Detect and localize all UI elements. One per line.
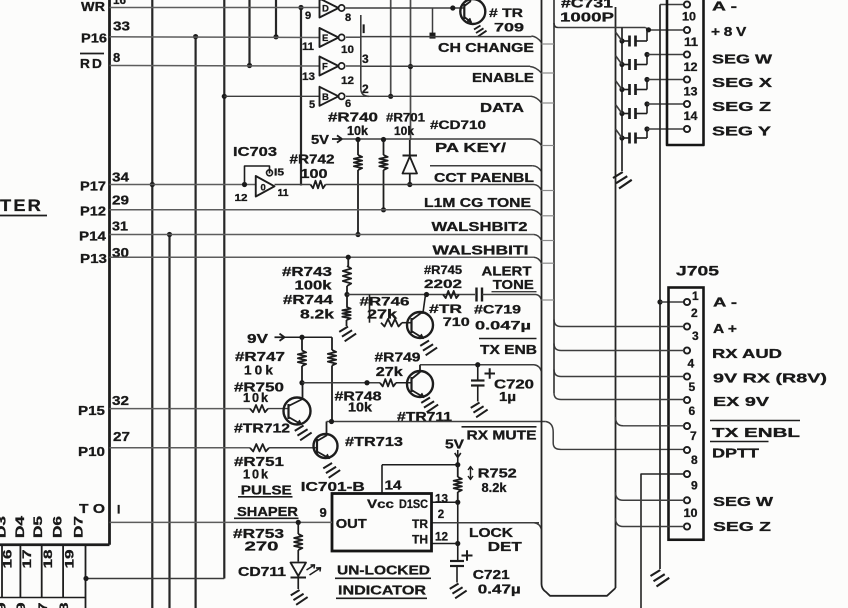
cap C731-1 riser to pin wire <box>646 30 648 41</box>
A- net vertical wire <box>659 5 661 570</box>
junction dot P16/x195.6 <box>193 34 198 39</box>
svg-text:SEG Y: SEG Y <box>712 125 772 139</box>
resistor R745 (horizontal) <box>443 291 459 298</box>
resistor R752 <box>457 465 459 477</box>
svg-text:19: 19 <box>63 549 77 568</box>
svg-text:R752: R752 <box>478 467 517 481</box>
LED CD711 <box>291 563 307 577</box>
flag diagonal LIM CG TONE <box>532 210 542 216</box>
junction dot RD/x249.5 <box>247 63 252 68</box>
J705 pin circle 10 <box>684 523 690 529</box>
svg-text:P16: P16 <box>81 31 107 46</box>
svg-text:TER: TER <box>0 196 43 215</box>
junction dot TR709 base wire <box>450 5 455 10</box>
svg-text:1µ: 1µ <box>499 390 516 404</box>
wire R752 to pin12 node <box>457 502 459 543</box>
9V arrow <box>275 334 285 341</box>
IC block right edge <box>108 0 111 545</box>
svg-text:SEG W: SEG W <box>712 53 772 67</box>
junction dot R747 bottom <box>299 380 304 385</box>
wire R747 bottom to R749 <box>302 382 380 384</box>
wire ENABLE <box>361 65 530 67</box>
svg-text:A +: A + <box>713 322 737 336</box>
svg-text:18: 18 <box>41 549 55 568</box>
svg-text:D3: D3 <box>0 516 9 538</box>
svg-text:11: 11 <box>278 188 289 199</box>
ground capacitor bus <box>613 172 632 189</box>
svg-text:5: 5 <box>689 380 696 394</box>
svg-text:100k: 100k <box>295 279 332 293</box>
wire LIM CG TONE (P12 row) <box>110 209 532 211</box>
svg-text:CH CHANGE: CH CHANGE <box>438 41 534 55</box>
svg-text:33: 33 <box>113 19 130 34</box>
inverter IC703 <box>256 176 275 197</box>
svg-text:16: 16 <box>113 0 126 7</box>
wire R742 to CCT PAENBL flag <box>326 184 535 186</box>
svg-text:+8V: +8V <box>711 25 750 39</box>
top connector pin circle 3 <box>684 76 690 82</box>
trunk diagonal to cap row 3 <box>616 81 623 90</box>
J705 pin circle 9 <box>684 497 690 503</box>
wire DPTT to J705 pin 7 <box>561 448 685 450</box>
bus wire x=249.5 <box>248 0 250 66</box>
wire P15 row <box>110 408 251 410</box>
svg-text:5V: 5V <box>311 132 329 147</box>
junction dot IC703 feedback <box>242 182 247 187</box>
junction dot R753 top <box>296 520 301 525</box>
J705 pin circle 5 <box>684 397 690 403</box>
wire inverter B output to DATA flag <box>346 95 531 97</box>
svg-text:D6: D6 <box>53 516 65 538</box>
svg-text:0.047µ: 0.047µ <box>475 319 531 333</box>
ground R744 <box>339 327 356 342</box>
svg-text:2: 2 <box>438 509 444 521</box>
svg-text:SEG Z: SEG Z <box>713 520 772 534</box>
cable trunk left line <box>542 0 616 596</box>
pin wire row y=129 <box>647 128 684 130</box>
svg-text:DATA: DATA <box>480 101 524 115</box>
plus sign C720 <box>485 368 496 378</box>
svg-text:P10: P10 <box>78 444 105 459</box>
wire SEG W to pin 9 <box>623 499 684 501</box>
svg-text:8: 8 <box>345 12 351 24</box>
junction dot P16row/x276 <box>273 34 278 39</box>
svg-text:19: 19 <box>0 602 9 608</box>
svg-text:11: 11 <box>684 35 698 49</box>
bottom connector lower edge <box>0 597 86 599</box>
svg-text:TX ENBL: TX ENBL <box>712 426 801 440</box>
svg-text:OUT: OUT <box>336 517 367 531</box>
svg-text:10: 10 <box>684 506 698 520</box>
flag diagonal CH CHANGE <box>532 36 542 43</box>
svg-text:WALSHBITI: WALSHBITI <box>433 244 529 258</box>
svg-text:P15: P15 <box>78 403 105 418</box>
svg-text:CD711: CD711 <box>238 565 286 579</box>
svg-text:#R749: #R749 <box>375 351 421 365</box>
cap C731-5 riser to pin wire <box>646 129 648 138</box>
flag curve TX ENB <box>534 365 542 372</box>
junction dot ENABLE/x410.5 <box>408 64 413 69</box>
trunk diagonal to cap row 1 <box>616 32 623 41</box>
svg-text:6: 6 <box>345 98 351 110</box>
svg-text:INDICATOR: INDICATOR <box>338 583 427 598</box>
svg-text:18: 18 <box>57 602 71 608</box>
svg-text:# TR: # TR <box>489 6 523 20</box>
wire inverter D output to TR709 base <box>346 7 464 9</box>
label TX ENBL with overline <box>710 420 800 422</box>
svg-text:P13: P13 <box>80 251 107 266</box>
svg-text:B: B <box>322 92 329 103</box>
svg-text:D1SC: D1SC <box>399 499 428 511</box>
wire TX ENBL to pin 6 <box>623 425 684 427</box>
connector J705 body <box>669 288 704 540</box>
inverter D <box>320 0 339 18</box>
wire x224 row to inverter B input <box>224 95 319 97</box>
svg-text:8.2k: 8.2k <box>300 308 334 322</box>
wire RD row to inverter F input <box>110 65 320 68</box>
svg-text:LOCK: LOCK <box>469 526 513 540</box>
svg-text:#R701: #R701 <box>386 111 425 125</box>
junction dot WR row/x301 <box>298 5 303 10</box>
wire RX MUTE <box>327 421 546 423</box>
wire WR row to inverter D input <box>110 7 320 9</box>
flag diagonal CCT PAENBL <box>534 185 542 191</box>
svg-text:12: 12 <box>341 75 354 87</box>
junction dot R743 top (P13 wire) <box>346 255 351 260</box>
wire pin 8 going down <box>641 474 684 608</box>
top connector P70x body <box>667 0 704 145</box>
flag diagonal ALERT TONE <box>536 295 542 301</box>
bus wire x=276 <box>275 0 277 37</box>
transistor TR710 <box>407 312 433 338</box>
LED light arrows <box>307 565 315 570</box>
svg-text:SEG W: SEG W <box>713 495 773 509</box>
svg-text:J705: J705 <box>676 264 720 279</box>
junction dot B-input/x224 <box>222 94 227 99</box>
svg-text:0: 0 <box>261 183 266 194</box>
svg-text:709: 709 <box>494 21 524 35</box>
svg-text:6: 6 <box>689 404 696 418</box>
ground TR713 emitter <box>323 463 340 478</box>
top connector pin circle 1 <box>684 27 690 33</box>
svg-text:14: 14 <box>385 479 402 493</box>
trunk exit curve SEG W <box>616 492 624 500</box>
resistor R749 (horizontal) <box>380 379 396 386</box>
cap C731-4 riser to pin wire <box>646 104 648 114</box>
svg-text:13: 13 <box>684 85 698 99</box>
bypass capacitor C731-2 <box>619 62 624 67</box>
5V down arrow <box>455 450 461 458</box>
svg-text:I: I <box>117 503 120 517</box>
svg-text:10k: 10k <box>347 124 368 138</box>
wire P17 row to IC703 input <box>110 184 256 186</box>
label DPTT with overline <box>710 441 769 443</box>
pin wire row y=79.5 <box>647 79 684 81</box>
svg-text:I: I <box>362 22 365 36</box>
J705 pin circle 8 <box>684 471 690 477</box>
svg-text:13: 13 <box>435 494 448 506</box>
svg-text:16: 16 <box>1 549 15 568</box>
bus wire x=195.6 from P16 <box>195 37 197 608</box>
wire IC703 output <box>275 184 311 186</box>
cap C731-3 riser to pin wire <box>646 80 648 90</box>
wire 9V RX to pin 4 <box>561 376 684 378</box>
flag diagonal WALSHBIT2 <box>534 235 542 241</box>
5V arrow <box>332 135 342 142</box>
+8V wire from cable <box>558 27 646 29</box>
svg-text:A -: A - <box>712 0 737 14</box>
svg-text:17: 17 <box>20 549 34 568</box>
wire TX ENB from TR711 collector <box>420 364 534 366</box>
wire A- to top connector pin <box>660 4 684 6</box>
resistor R746 (horizontal) <box>381 319 402 327</box>
IC703 feedback loop <box>245 166 270 185</box>
capacitor C720 (polarized) <box>477 365 479 380</box>
J705 pin circle 2 <box>684 323 690 329</box>
wire C719 to ALERT TONE flag <box>482 294 536 296</box>
svg-text:9V RX (R8V): 9V RX (R8V) <box>713 372 827 386</box>
trunk exit curve SEG Z <box>616 518 624 527</box>
flag diagonal WALSHBIT1 <box>534 257 542 263</box>
inner line exit curve RX AUD <box>554 344 561 351</box>
bottom connector cell dividers <box>1 545 3 598</box>
svg-text:5V: 5V <box>445 438 465 452</box>
svg-text:TR: TR <box>412 517 428 531</box>
wire J705 pin 1 <box>660 301 684 303</box>
svg-text:100: 100 <box>301 167 328 181</box>
svg-text:ALERT: ALERT <box>482 265 532 279</box>
pin 14 stub <box>381 465 383 494</box>
svg-text:#TR712: #TR712 <box>234 422 290 436</box>
wire pin 2 LOCK DET <box>432 522 540 524</box>
svg-text:10k: 10k <box>243 467 270 482</box>
svg-text:3: 3 <box>692 329 699 343</box>
svg-text:8.2k: 8.2k <box>482 481 507 495</box>
cable trunk right line <box>615 7 617 588</box>
wire alert tone divider to C719 <box>347 294 475 296</box>
svg-text:17: 17 <box>36 602 50 608</box>
label TX ENB with overline <box>479 338 537 340</box>
junction dot R752 bottom / pin13 <box>455 500 460 505</box>
svg-text:PA KEY/: PA KEY/ <box>435 141 507 155</box>
5V rail wire / PA KEY flag wire <box>342 138 531 140</box>
svg-text:P14: P14 <box>79 229 107 244</box>
svg-text:#TR713: #TR713 <box>345 435 403 449</box>
svg-text:F: F <box>322 62 328 73</box>
ground TR712 emitter <box>295 426 312 441</box>
ground CD711 <box>291 590 308 605</box>
ground TR709 emitter <box>474 26 487 37</box>
svg-text:10k: 10k <box>348 401 372 415</box>
svg-text:8: 8 <box>113 50 120 65</box>
wire SEG Z to pin 10 <box>623 526 684 528</box>
svg-text:DPTT: DPTT <box>712 447 760 461</box>
vertical jog D-row to CH CHANGE row <box>432 8 434 36</box>
wire inverter E output stub <box>346 36 361 38</box>
top connector pin circle 4 <box>684 101 690 107</box>
svg-text:10: 10 <box>341 44 354 56</box>
resistor R740 <box>357 140 359 156</box>
svg-text:7: 7 <box>690 429 697 443</box>
svg-text:14: 14 <box>684 109 698 123</box>
svg-text:RD: RD <box>80 56 104 71</box>
transistor TR712 <box>284 398 311 425</box>
svg-text:710: 710 <box>443 315 470 329</box>
svg-text:D4: D4 <box>15 515 27 538</box>
svg-text:IC701-B: IC701-B <box>301 479 365 494</box>
R752 updown arrow symbol <box>468 467 473 480</box>
bypass capacitor C731-1 <box>619 38 624 43</box>
svg-text:TH: TH <box>412 533 428 547</box>
transistor TR711 <box>407 371 433 397</box>
resistor R751 (horizontal) <box>250 444 269 451</box>
svg-text:5: 5 <box>309 99 315 111</box>
svg-text:10k: 10k <box>243 390 270 405</box>
junction dot A- J705 pin1 <box>657 299 662 304</box>
svg-text:13: 13 <box>302 71 315 83</box>
ground TR710 emitter <box>420 341 437 356</box>
plus sign C721 <box>462 550 473 561</box>
inverter B <box>320 87 339 106</box>
wire EX 9V to pin 5 <box>561 399 684 401</box>
junction dot R740 bottom / WALSHBIT2 <box>355 232 360 237</box>
svg-text:PULSE: PULSE <box>241 483 292 498</box>
junction dot R701 bottom / LIM CG TONE <box>381 207 386 212</box>
wire WALSHBIT2 (P14 row) <box>110 234 535 236</box>
svg-text:D7: D7 <box>74 516 86 538</box>
junction dot R748 bottom / RX MUTE <box>329 419 334 424</box>
svg-text:1000P: 1000P <box>560 10 614 25</box>
svg-text:#R742: #R742 <box>290 153 335 167</box>
svg-text:#R740: #R740 <box>328 111 378 125</box>
svg-text:#R745: #R745 <box>424 263 462 277</box>
svg-text:L1M CG TONE: L1M CG TONE <box>424 196 531 210</box>
capacitor C719 (series bars) <box>475 288 477 302</box>
pin wire row y=104 <box>647 103 684 105</box>
inverter F <box>320 57 339 76</box>
flag diagonal PA KEY <box>531 139 542 146</box>
junction dot pin12 node <box>455 541 460 546</box>
svg-text:CCT PAENBL: CCT PAENBL <box>434 171 534 185</box>
svg-text:#TR: #TR <box>429 302 462 316</box>
svg-text:A -: A - <box>713 296 737 310</box>
bus wire x=169.5 from P14 <box>168 235 170 608</box>
svg-text:12: 12 <box>435 532 448 544</box>
bus wire x=301 <box>300 8 302 186</box>
junction dot P17/x152 <box>150 182 155 187</box>
svg-text:9: 9 <box>691 479 698 493</box>
junction dot bottom wire <box>83 576 88 581</box>
svg-text:10: 10 <box>682 10 696 24</box>
svg-text:34: 34 <box>112 170 130 185</box>
junction dot Vcc/R752 <box>455 462 460 467</box>
wire RX AUD to pin 3 <box>561 350 684 352</box>
bus wire x=152 <box>151 0 153 608</box>
label RX MUTE with overline <box>462 426 537 428</box>
svg-text:ENABLE: ENABLE <box>472 71 534 85</box>
inner line exit curve 9V RX <box>554 370 561 377</box>
pin label RD with overline <box>80 53 104 55</box>
IC block bottom edge <box>0 543 110 546</box>
trunk diagonal to cap row 4 <box>616 105 623 114</box>
wire alert divider to R746 <box>369 295 371 323</box>
wire pin 13 <box>432 501 458 503</box>
svg-text:27: 27 <box>113 429 130 444</box>
svg-text:12: 12 <box>235 193 249 204</box>
square junction dot CH CHANGE <box>430 33 436 39</box>
bus wire x=224 <box>223 0 225 579</box>
svg-text:8: 8 <box>691 453 698 467</box>
transistor TR709 <box>460 0 485 24</box>
svg-text:11: 11 <box>302 41 314 53</box>
J705 pin circle 4 <box>684 373 690 379</box>
TONE underline <box>492 291 537 293</box>
svg-text:10k: 10k <box>394 124 414 138</box>
ground C720 <box>471 403 488 418</box>
J705 pin circle 1 <box>684 299 690 305</box>
junction dot R747 top <box>299 335 304 340</box>
wire T0 row to IC701-B OUT <box>110 521 333 523</box>
resistor R753 <box>297 522 299 534</box>
pin wire row y=54.5 <box>647 54 684 56</box>
svg-text:10k: 10k <box>244 363 276 378</box>
bypass capacitor C731-3 <box>619 87 624 92</box>
J705 pin circle 7 <box>684 447 690 453</box>
junction dot DATA/x391 <box>388 94 393 99</box>
9V rail wire <box>285 336 333 338</box>
capacitor C721 <box>457 544 459 561</box>
svg-text:UN-LOCKED: UN-LOCKED <box>337 563 430 578</box>
top connector pin circle 2 <box>684 51 690 57</box>
IC701-B box <box>332 494 432 552</box>
cap C731-2 riser to pin wire <box>646 55 648 65</box>
svg-text:SEG X: SEG X <box>712 76 773 90</box>
wire pin 12 <box>432 543 458 545</box>
svg-text:12: 12 <box>684 60 698 74</box>
svg-text:4: 4 <box>688 357 695 371</box>
ground C721 <box>450 584 467 599</box>
svg-text:C721: C721 <box>473 568 510 582</box>
svg-text:D: D <box>322 4 329 15</box>
svg-text:#R746: #R746 <box>360 295 410 309</box>
junction dot x367 <box>364 380 369 385</box>
svg-text:2: 2 <box>691 306 698 320</box>
capacitor bus line <box>621 28 623 172</box>
top connector pin circle 5 <box>684 126 690 132</box>
junction dot P14/x169.5 <box>167 232 172 237</box>
junction dot +8V <box>646 27 651 32</box>
transistor TR713 <box>314 434 338 458</box>
inner line exit curve EX 9V <box>554 393 561 400</box>
svg-text:0.47µ: 0.47µ <box>478 583 521 597</box>
svg-text:270: 270 <box>245 540 279 554</box>
svg-text:27k: 27k <box>376 365 403 379</box>
wire A+ to pin 2 <box>561 326 684 328</box>
resistor R750 (horizontal) <box>250 405 268 412</box>
trunk exit curve TX ENBL <box>616 417 624 426</box>
wire P16 row to inverter E input <box>110 36 320 39</box>
wire WALSHBIT1 (P13 row) <box>110 256 535 258</box>
resistor R701 <box>383 140 385 156</box>
bypass capacitor C731-4 <box>619 111 624 116</box>
svg-text:9V: 9V <box>247 331 268 346</box>
svg-text:RX MUTE: RX MUTE <box>467 429 537 443</box>
svg-text:P17: P17 <box>80 179 106 194</box>
resistor R747 <box>301 337 303 350</box>
svg-text:2202: 2202 <box>424 277 462 291</box>
svg-text:#R744: #R744 <box>283 293 333 307</box>
flag diagonal PA KEY underline <box>533 166 542 172</box>
